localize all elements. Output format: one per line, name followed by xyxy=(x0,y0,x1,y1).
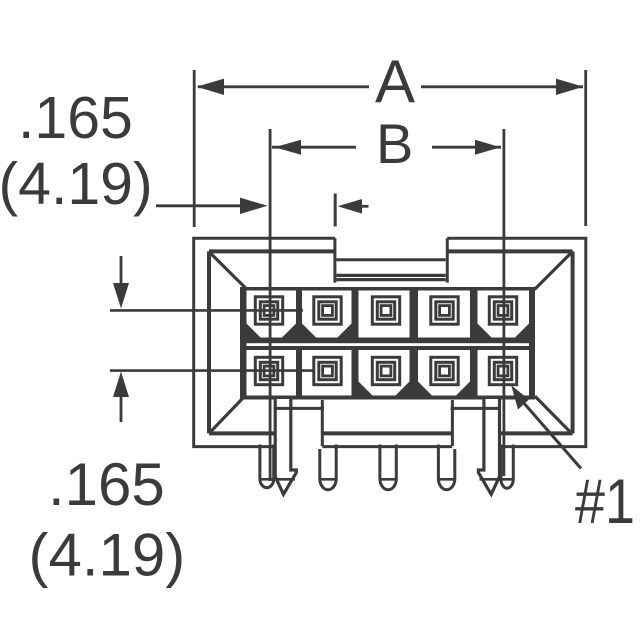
svg-text:(4.19): (4.19) xyxy=(0,151,153,217)
svg-text:#1: #1 xyxy=(575,467,635,537)
svg-text:.165: .165 xyxy=(48,451,165,518)
svg-text:.165: .165 xyxy=(18,85,133,151)
svg-text:(4.19): (4.19) xyxy=(29,522,186,589)
svg-text:B: B xyxy=(376,112,413,175)
svg-text:A: A xyxy=(375,48,415,115)
